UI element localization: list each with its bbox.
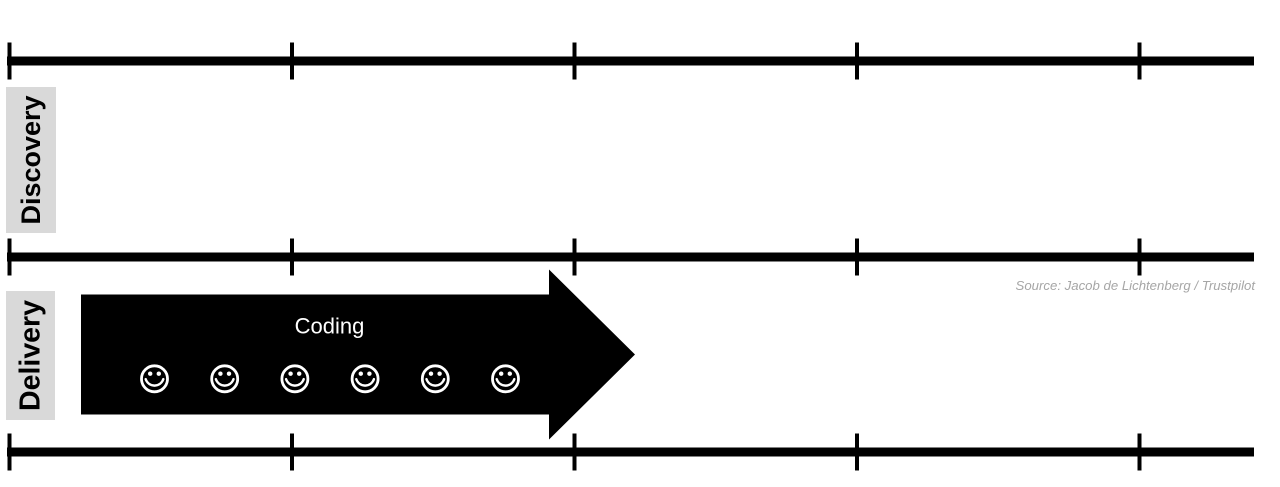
timeline 1 tick 4 (855, 43, 859, 80)
timeline 3 tick 1 (8, 434, 12, 471)
smiley face 6 (493, 366, 519, 392)
timeline 2 tick 5 (1138, 239, 1142, 276)
timeline 1 (Discovery) axis line (7, 57, 1254, 66)
smiley face 3 (282, 366, 308, 392)
smiley face 1 (142, 366, 168, 392)
timeline 2 (middle) axis line (7, 253, 1254, 262)
smiley face 4 (352, 366, 378, 392)
timeline 1 tick 2 (290, 43, 294, 80)
svg-text:Delivery: Delivery (15, 300, 47, 411)
timeline 3 tick 3 (573, 434, 577, 471)
smiley face 2 (212, 366, 238, 392)
svg-text:Coding: Coding (295, 313, 365, 338)
timeline 1 tick 5 (1138, 43, 1142, 80)
timeline 3 tick 2 (290, 434, 294, 471)
Delivery lane label box (6, 291, 55, 420)
Coding process arrow (black block arrow) (81, 270, 635, 440)
timeline 3 tick 5 (1138, 434, 1142, 471)
timeline 3 tick 4 (855, 434, 859, 471)
smiley face 5 (422, 366, 448, 392)
timeline 3 (bottom) axis line (7, 448, 1254, 457)
svg-text:Discovery: Discovery (16, 95, 46, 224)
timeline 2 tick 3 (573, 239, 577, 276)
timeline 1 tick 3 (573, 43, 577, 80)
timeline 2 tick 4 (855, 239, 859, 276)
Discovery lane label box (6, 87, 56, 233)
timeline 1 tick 1 (8, 43, 12, 80)
timeline 2 tick 1 (8, 239, 12, 276)
timeline 2 tick 2 (290, 239, 294, 276)
svg-text:Source: Jacob de Lichtenberg /: Source: Jacob de Lichtenberg / Trustpilo… (1016, 278, 1257, 293)
